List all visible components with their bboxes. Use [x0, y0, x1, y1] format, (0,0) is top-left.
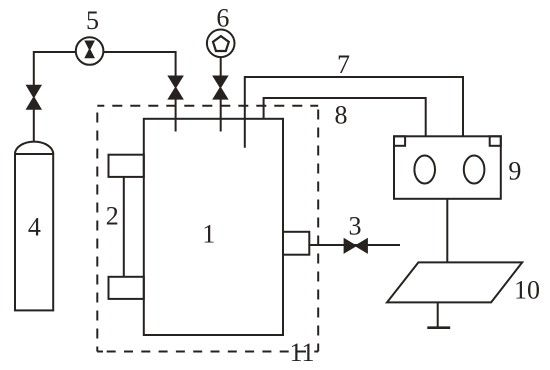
svg-text:4: 4 [28, 213, 41, 242]
svg-text:8: 8 [335, 100, 348, 129]
svg-text:6: 6 [216, 4, 229, 33]
svg-text:7: 7 [337, 50, 350, 79]
svg-text:3: 3 [349, 211, 362, 240]
svg-text:5: 5 [86, 6, 99, 35]
svg-text:9: 9 [508, 156, 521, 185]
svg-text:10: 10 [514, 276, 540, 305]
svg-text:1: 1 [202, 219, 215, 248]
svg-text:2: 2 [106, 201, 119, 230]
svg-text:11: 11 [289, 338, 314, 367]
